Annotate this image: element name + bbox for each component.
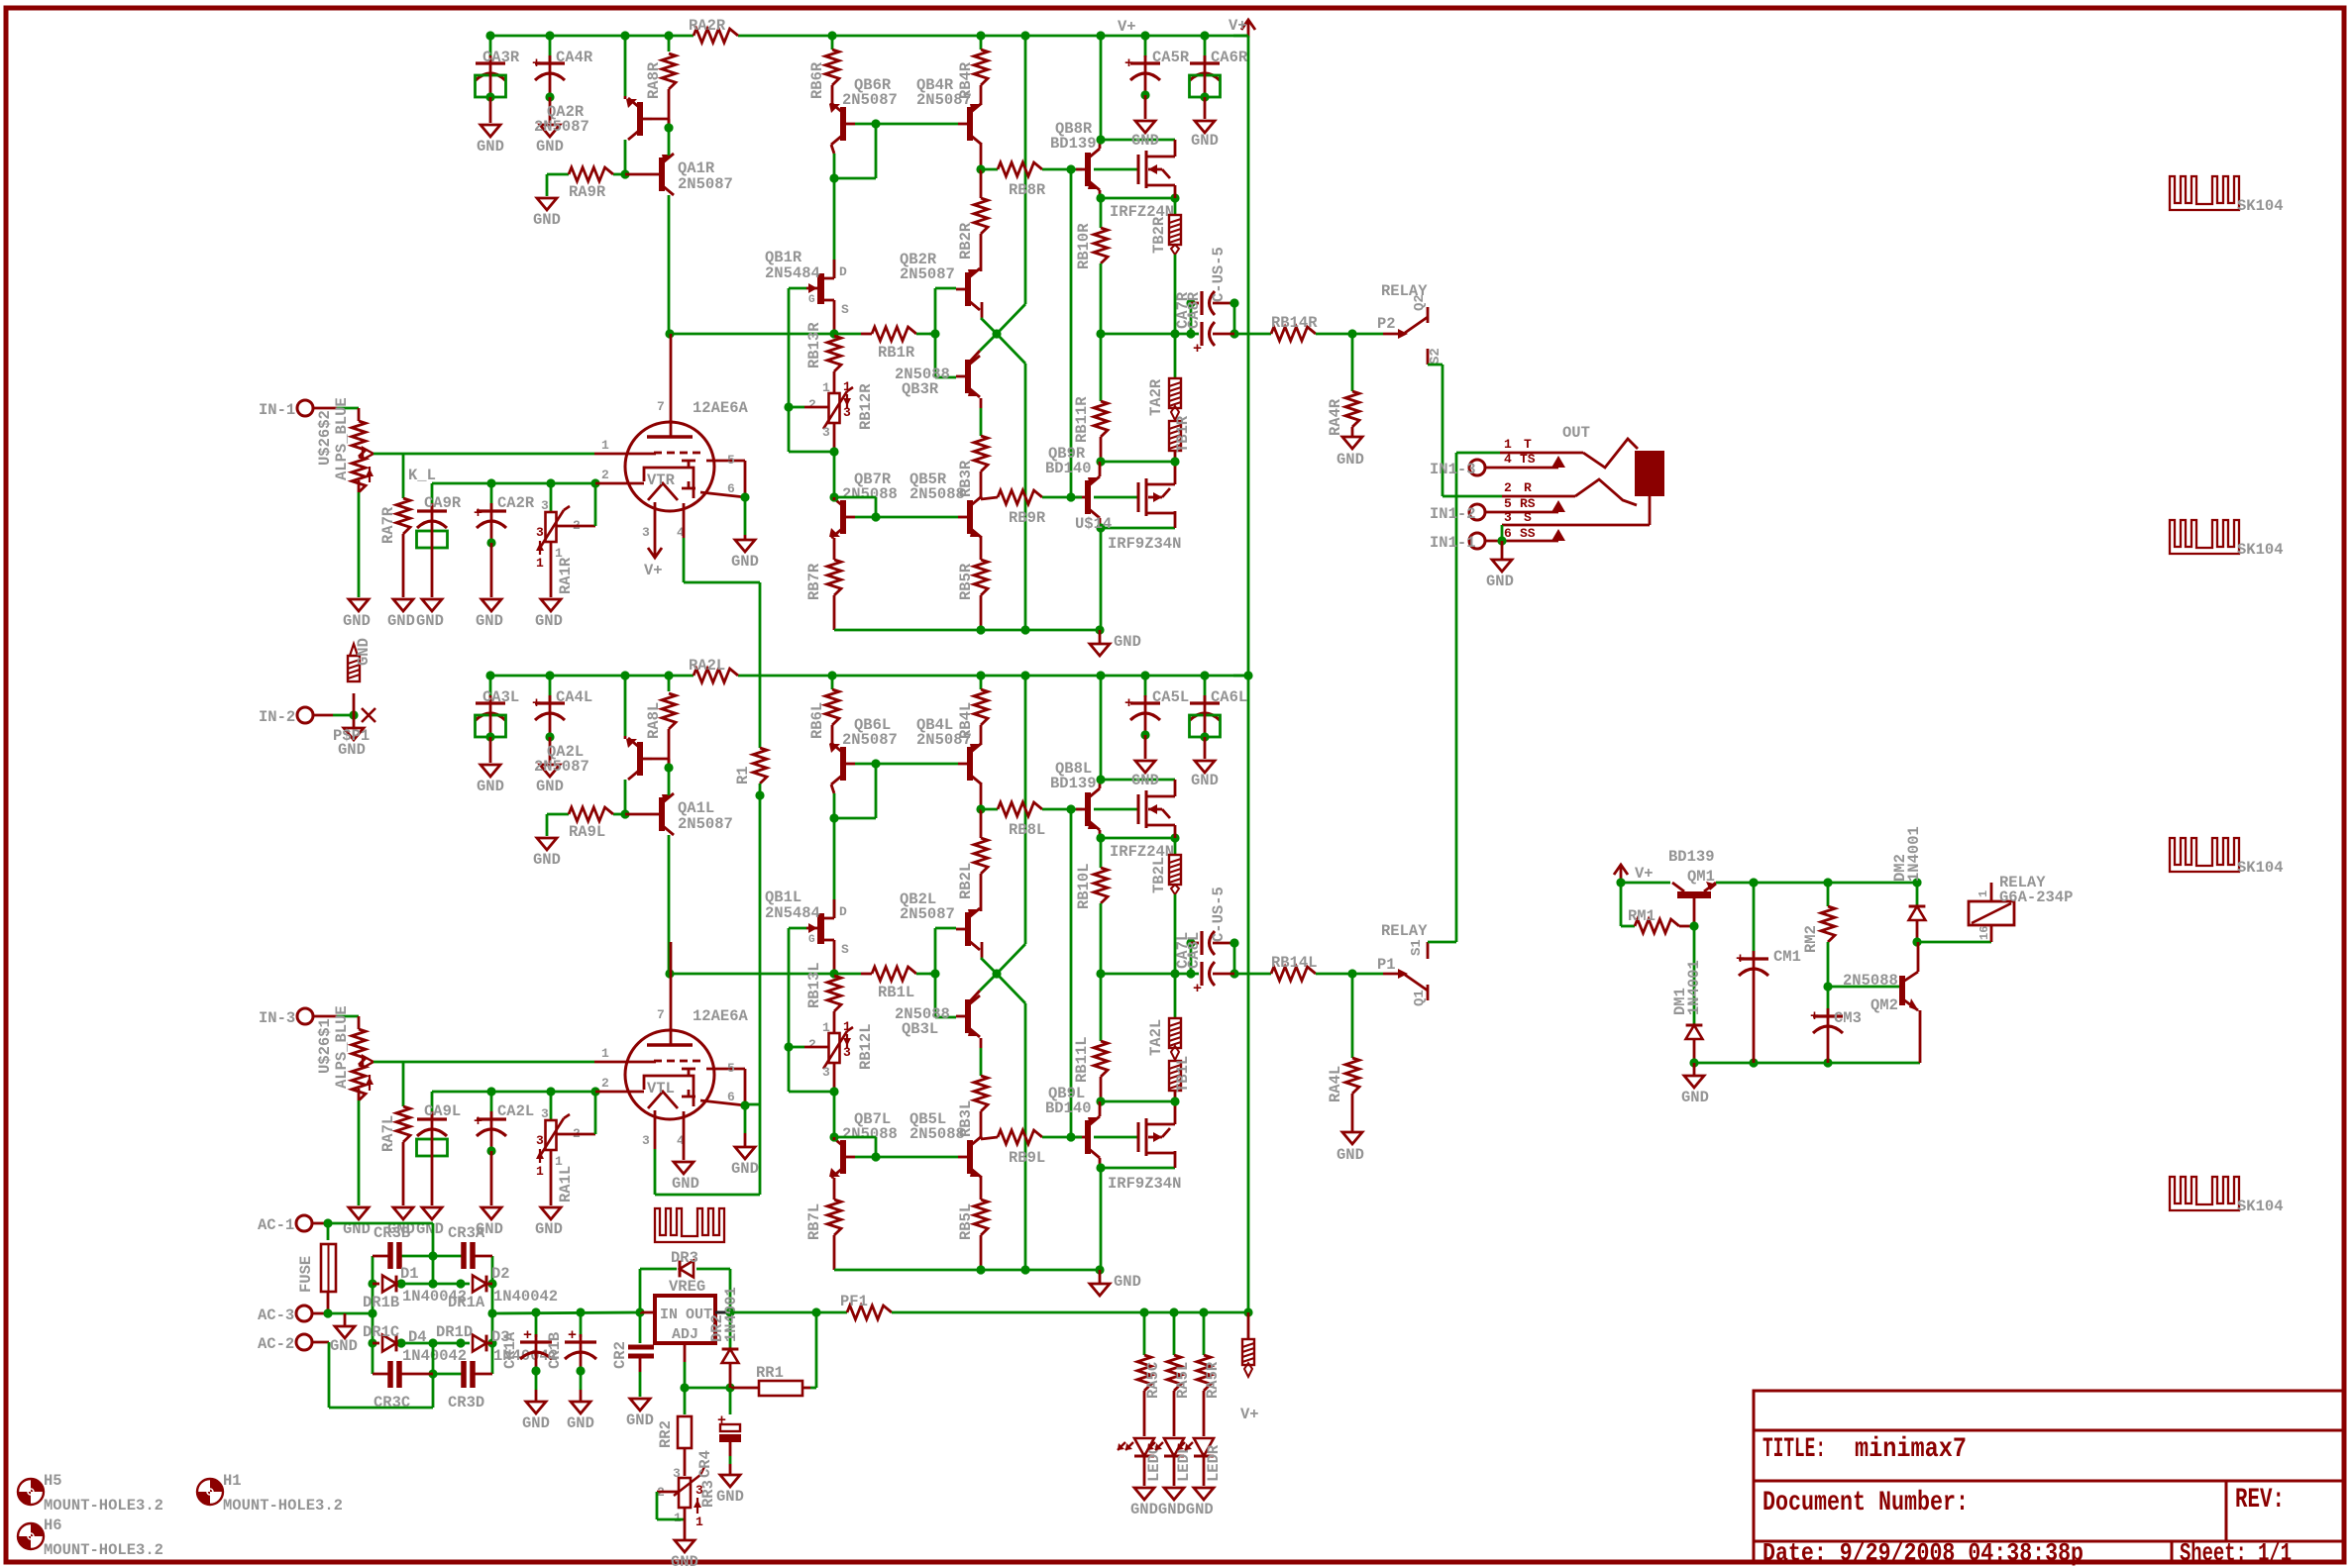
wire QB9R collector row (1101, 527, 1175, 530)
resistor RM1 (1635, 919, 1679, 933)
trimmer RB12L (829, 1033, 840, 1063)
capacitor CR2 (639, 1312, 642, 1343)
junction rail x990 L (976, 671, 985, 679)
wire jack gnd stub (1501, 541, 1504, 560)
svg-text:ALPS_BLUE: ALPS_BLUE (333, 397, 351, 480)
wire RA5R column (1203, 1312, 1206, 1355)
wire pot L bottom to ground (358, 1100, 361, 1205)
svg-text:SK104: SK104 (2237, 859, 2284, 877)
resistor RB11L (1100, 974, 1103, 1041)
wire QB1L drain (833, 818, 836, 918)
svg-text:GND: GND (1131, 132, 1159, 150)
svg-text:VTL: VTL (647, 1080, 675, 1098)
wire ground bus L (834, 1269, 1100, 1272)
svg-text:+: + (1193, 981, 1202, 997)
transistor QB9L BD140 (1085, 1120, 1091, 1154)
wire QB9L collector row (1101, 1167, 1175, 1170)
capacitor CR3B (387, 1242, 393, 1269)
diode DM1 1N4001 (1686, 1025, 1703, 1039)
svg-text:RB6R: RB6R (808, 61, 826, 99)
wire bus to TA2R (1174, 334, 1177, 378)
power V+ below VTR pin 3 (654, 502, 657, 540)
svg-text:7: 7 (657, 399, 665, 414)
svg-text:TB1R: TB1R (1174, 415, 1192, 453)
resistor RB7R (827, 560, 841, 595)
wire V+ main vertical (1247, 36, 1250, 1312)
capacitor CA4R (549, 36, 552, 61)
wire QB8R emitter node (1099, 190, 1102, 198)
svg-text:S1: S1 (1409, 939, 1425, 956)
resistor RA4R (1351, 334, 1354, 391)
svg-text:RA8R: RA8R (645, 61, 663, 99)
wire QB9R emitter (1099, 462, 1102, 476)
svg-text:DR1B: DR1B (363, 1294, 399, 1311)
transistor QB8R BD139 (1085, 153, 1091, 186)
svg-text:GND: GND (1336, 451, 1364, 469)
resistor RB8R (981, 168, 998, 171)
svg-text:RB6L: RB6L (808, 702, 826, 739)
svg-text:2N5087: 2N5087 (678, 815, 733, 833)
wire drain column to gnd bus L (1100, 1168, 1103, 1270)
svg-text:CA3R: CA3R (482, 49, 520, 66)
svg-text:GND: GND (477, 778, 504, 795)
svg-text:RB14L: RB14L (1271, 954, 1318, 972)
junction QM1 base/DM1 (1689, 921, 1698, 930)
ground CR4 (720, 1475, 740, 1487)
svg-text:IN1-2: IN1-2 (1430, 505, 1476, 523)
junction rail x631 R (620, 31, 629, 40)
trimmer TB1R (1169, 421, 1181, 451)
junction rail x1035 L (1020, 671, 1029, 679)
resistor RA9R (569, 167, 613, 181)
wire S to SS node (1501, 525, 1504, 541)
transistor QB8L BD139 (1085, 792, 1091, 826)
transistor QB6L (840, 747, 846, 781)
svg-text:2N5087: 2N5087 (678, 175, 733, 193)
junction RA4L (1347, 969, 1356, 978)
svg-text:RA1R: RA1R (557, 557, 575, 594)
diode DM2 body (1909, 906, 1926, 920)
wire source to TB2L (1174, 838, 1177, 855)
svg-text:C-US-5: C-US-5 (1210, 887, 1228, 942)
arrow TA2L wiper (1171, 1046, 1179, 1060)
svg-text:RB9R: RB9R (1009, 509, 1046, 527)
wire QB6R leads (830, 103, 833, 105)
wire V+ rail end (1233, 35, 1248, 38)
svg-text:CA6L: CA6L (1211, 688, 1247, 706)
svg-text:2N5088: 2N5088 (909, 1125, 965, 1143)
svg-text:5: 5 (727, 453, 735, 468)
svg-text:D1: D1 (400, 1265, 419, 1283)
wire ground bus R (834, 629, 1100, 632)
svg-text:RELAY: RELAY (1381, 922, 1428, 940)
resistor RB14L (1271, 967, 1316, 981)
junction bus/RB13L (829, 969, 838, 978)
svg-text:2N5087: 2N5087 (534, 118, 589, 136)
wire fuse to AC-3 row (327, 1292, 330, 1313)
svg-text:V+: V+ (644, 562, 663, 579)
junction rail x555 L (545, 671, 554, 679)
wire LEDC to gnd (1143, 1453, 1146, 1486)
jack pin 5 RS line (1485, 511, 1558, 514)
wire QA2L base to RA8L (652, 758, 669, 761)
capacitor CR3D (461, 1361, 467, 1388)
wire VTL pin6 to ground (744, 1105, 747, 1133)
pad IN1-1 (1469, 533, 1485, 549)
wire LEDR to gnd (1203, 1453, 1206, 1486)
svg-text:1: 1 (536, 1164, 544, 1179)
wire RA5L column (1173, 1312, 1176, 1355)
svg-text:CA9L: CA9L (424, 1102, 461, 1120)
wire relay gnd rail (1694, 1062, 1920, 1065)
wire IRFZ24N L source (1174, 825, 1177, 838)
junction lower mirror tie R (871, 512, 880, 521)
wire RA1L pin1 to gnd (550, 1150, 553, 1205)
svg-text:D4: D4 (408, 1328, 427, 1346)
wire gate feed lower R (1094, 496, 1138, 499)
svg-text:1: 1 (1504, 437, 1512, 452)
svg-text:TB2L: TB2L (1150, 857, 1168, 893)
svg-text:2: 2 (601, 468, 609, 482)
wire QB1R gate net (789, 287, 806, 290)
ground AC-3 center tap (344, 1313, 347, 1326)
wire QB4L collector down (980, 784, 983, 809)
wire RR1 to V+ rail (810, 1387, 816, 1390)
wire QB3R collector stub (969, 351, 980, 363)
pad IN1-2 (1469, 504, 1485, 520)
svg-text:5: 5 (727, 1061, 735, 1076)
svg-text:1: 1 (843, 1019, 851, 1034)
svg-text:+: + (474, 505, 482, 522)
junction QM2 base (1823, 982, 1832, 991)
transistor QB9R BD140 (1085, 480, 1091, 514)
ground pot L (349, 1207, 369, 1219)
svg-text:QM2: QM2 (1870, 996, 1898, 1014)
diode DR2 body (722, 1349, 739, 1363)
wire main bus left L (669, 973, 861, 976)
capacitor CA7L (1190, 943, 1193, 974)
svg-text:2N5087: 2N5087 (842, 731, 898, 749)
arrow RB12R red (846, 394, 848, 408)
transistor QA1L (659, 797, 665, 831)
junction RB12R bottom (829, 447, 838, 456)
svg-text:D2: D2 (491, 1265, 510, 1283)
wire RA9R to ground (546, 174, 549, 196)
ground pot R (349, 599, 369, 611)
svg-text:RA8L: RA8L (645, 702, 663, 739)
junction rail x1156 L (1140, 671, 1149, 679)
resistor RB7L (827, 1200, 841, 1235)
svg-text:GND: GND (1681, 1089, 1709, 1106)
svg-text:2N5088: 2N5088 (1843, 972, 1898, 990)
wire QB3L collector stub (969, 991, 980, 1002)
svg-text:ALPS_BLUE: ALPS_BLUE (333, 1005, 351, 1089)
pad AC-2 (296, 1334, 312, 1350)
svg-text:1N40042: 1N40042 (402, 1347, 467, 1365)
mosfet IRFZ24N R (1137, 155, 1140, 184)
capacitor CM1 (1753, 883, 1756, 957)
tube VTL 12AE6A (625, 1030, 714, 1119)
wire bridge left rail (372, 1256, 374, 1374)
wire QM2 base line (1828, 986, 1899, 989)
svg-text:1: 1 (695, 1515, 703, 1529)
trimmer RB12R (829, 393, 840, 423)
wire VTL pin 3 down (654, 1110, 657, 1149)
wire RA9L to ground (546, 814, 549, 836)
svg-text:GND: GND (343, 612, 371, 630)
wire RB12L wiper (789, 1046, 804, 1049)
mosfet IRF9Z34N R (1137, 482, 1140, 512)
trimmer TB2L (1169, 855, 1181, 885)
svg-text:RB12R: RB12R (857, 383, 875, 430)
svg-text:GND: GND (536, 138, 564, 156)
svg-text:TB2R: TB2R (1150, 216, 1168, 254)
svg-text:GND: GND (477, 138, 504, 156)
svg-text:IN-3: IN-3 (259, 1009, 295, 1027)
wire AC-1 to fuse (327, 1223, 330, 1240)
resistor RB6R (831, 36, 834, 50)
svg-text:1: 1 (843, 379, 851, 394)
svg-text:2N5088: 2N5088 (842, 1125, 898, 1143)
svg-text:U$26$1: U$26$1 (316, 1018, 334, 1074)
trimmer TB2R (1169, 215, 1181, 245)
svg-text:RA5L: RA5L (1174, 1362, 1192, 1399)
wire RA9L net (547, 813, 569, 816)
wire QA1L emitter up (668, 768, 671, 795)
wire wiper to RA7R (402, 454, 405, 498)
svg-text:RS: RS (1520, 496, 1536, 511)
junction mirror tie R (871, 119, 880, 128)
svg-text:RA7L: RA7L (379, 1115, 397, 1152)
svg-text:3: 3 (1504, 510, 1512, 525)
heatsink SK104 #1 (2170, 176, 2239, 210)
svg-text:GND: GND (1114, 1273, 1141, 1291)
wire cross arm lower-left L (980, 974, 997, 991)
junction QB6R collector tie (829, 173, 838, 182)
svg-text:6: 6 (727, 1090, 735, 1104)
resistor RB3R (980, 398, 983, 408)
svg-text:RB5L: RB5L (957, 1203, 975, 1240)
svg-text:BD139: BD139 (1050, 775, 1097, 792)
svg-text:TA2L: TA2L (1147, 1019, 1165, 1056)
ground CA2R (481, 599, 501, 611)
wire QA2R collector (624, 140, 627, 174)
wire CA8R to RB14R (1234, 333, 1271, 336)
svg-text:+: + (717, 1412, 726, 1429)
diode D4 DR1C (382, 1335, 396, 1352)
svg-text:2N5484: 2N5484 (765, 264, 820, 282)
svg-text:REV:: REV: (2235, 1485, 2285, 1516)
wire IRF9Z34N R drain (1174, 511, 1177, 528)
svg-text:1N4001: 1N4001 (1905, 826, 1923, 882)
junction rail x1035 R (1020, 31, 1029, 40)
arrow TA2R wiper (1171, 406, 1179, 420)
wire V+ low rail (892, 1311, 1248, 1314)
wire QB8L collector node (1099, 780, 1102, 788)
ground DM1 (1693, 1063, 1696, 1076)
wire VTR pin 7 (670, 334, 673, 422)
ground VTR (735, 540, 755, 552)
wire main bus left R (669, 333, 861, 336)
wire RB13R to RB12R (833, 371, 836, 393)
wire QA1R collector down to bus (668, 195, 671, 334)
wire bridge diode row 1 (373, 1283, 379, 1286)
svg-text:MOUNT-HOLE3.2: MOUNT-HOLE3.2 (44, 1541, 163, 1559)
wire relay pin16 row (1917, 941, 1991, 944)
diode D1 DR1B (382, 1276, 396, 1293)
heatsink SK104 #2 (2170, 520, 2239, 554)
svg-text:CR1B: CR1B (546, 1332, 564, 1369)
wire TB2L to bus (1174, 894, 1177, 974)
svg-text:3: 3 (541, 1106, 549, 1121)
wire QA2R emitter (624, 36, 627, 96)
wire RB5L to gnd bus (980, 1235, 983, 1270)
svg-text:GNDGNDGND: GNDGNDGND (1130, 1501, 1214, 1518)
wire cathode bus R (432, 482, 595, 485)
ground CA6L (1195, 761, 1215, 773)
switch terminal S2 (1427, 349, 1430, 365)
wire IRF9Z34N L source (1174, 1101, 1177, 1124)
svg-text:VTR: VTR (647, 471, 676, 489)
svg-text:CR2: CR2 (611, 1341, 629, 1369)
mount hole H1 (197, 1479, 223, 1505)
wire cross arm upper-left R (981, 318, 997, 334)
svg-text:1N4001: 1N4001 (1685, 960, 1703, 1015)
svg-text:GND: GND (731, 553, 759, 571)
ground IN-2 (344, 728, 364, 740)
svg-text:DR3: DR3 (671, 1249, 698, 1267)
capacitor CA8L (1233, 943, 1236, 974)
svg-text:GND: GND (671, 1553, 698, 1568)
svg-text:3: 3 (843, 405, 851, 420)
svg-text:QM1: QM1 (1687, 868, 1715, 886)
switch terminal S1 (1427, 942, 1430, 959)
svg-text:RA4R: RA4R (1327, 398, 1344, 436)
wire wiper line L (374, 1061, 594, 1064)
capacitor CA6L (1204, 676, 1207, 701)
svg-text:GND: GND (387, 612, 415, 630)
diode DR2 1N4001 (729, 1312, 732, 1349)
junction bus/TB2L (1170, 969, 1179, 978)
svg-text:RB11L: RB11L (1073, 1036, 1091, 1083)
svg-text:RB5R: RB5R (957, 563, 975, 600)
svg-text:IN1-3: IN1-3 (1430, 461, 1476, 478)
svg-text:MOUNT-HOLE3.2: MOUNT-HOLE3.2 (44, 1497, 163, 1515)
svg-text:Document Number:: Document Number: (1763, 1488, 1969, 1518)
ground PAD1 (353, 715, 356, 728)
junction rail x840 L (827, 671, 836, 679)
wire lower rail to V+ vertical (1233, 675, 1248, 678)
wire AC-2 loop to bottom cap row (312, 1341, 329, 1344)
ground CR2 (630, 1399, 650, 1411)
wire RA1R pin1 to gnd (550, 542, 553, 597)
wire RA5C column (1143, 1312, 1146, 1355)
svg-text:GND: GND (533, 211, 561, 229)
svg-text:IN: IN (660, 1307, 678, 1323)
svg-text:CA6R: CA6R (1211, 49, 1248, 66)
trimmer TA2L (1169, 1018, 1181, 1048)
junction bus/RB13R (829, 329, 838, 338)
svg-text:CA4L: CA4L (556, 688, 592, 706)
potentiometer U$26$2 ALPS_BLUE (358, 408, 361, 421)
wire S2 to jack ring (1428, 364, 1443, 366)
resistor RB13L (827, 976, 841, 1011)
svg-text:RR2: RR2 (657, 1420, 675, 1448)
ground relay circuit (1684, 1076, 1704, 1088)
wire QB5L emitter to RB5L (980, 1178, 983, 1200)
wire QB8L emitter node (1099, 830, 1102, 838)
svg-text:LEDR: LEDR (1205, 1444, 1223, 1482)
svg-text:2: 2 (601, 1076, 609, 1091)
wire QA2L emitter (624, 676, 627, 736)
junction RA9L/QA2L (620, 809, 629, 818)
wire bus to TA2L (1174, 974, 1177, 1018)
led LEDR (1194, 1438, 1214, 1456)
wire lower mirror tie horiz R (834, 496, 876, 499)
junction bus/tube plate R (665, 329, 674, 338)
jack tip contact (1583, 439, 1638, 468)
svg-text:PF1: PF1 (840, 1293, 868, 1310)
svg-text:CA8L: CA8L (1185, 932, 1203, 969)
wire AC-1 down to cap row (432, 1223, 435, 1256)
svg-text:CA5L: CA5L (1152, 688, 1189, 706)
resistor RB1R (872, 327, 916, 341)
svg-text:2: 2 (808, 1037, 816, 1052)
wire ADJ row (685, 1387, 730, 1390)
trimmer TB1L (1169, 1061, 1181, 1091)
wire bridge top cap row (373, 1255, 390, 1258)
junction RB12L bottom (829, 1087, 838, 1096)
wire DM2 anode to relay pin16 node (1916, 920, 1919, 942)
transistor QA2R (637, 102, 643, 136)
junction RA4R (1347, 329, 1356, 338)
svg-text:Date: 9/29/2008 04:38:38p: Date: 9/29/2008 04:38:38p (1763, 1538, 2084, 1568)
junction rail x675 R (664, 31, 673, 40)
resistor RB8L (981, 808, 998, 811)
jack pin 4 TS line (1485, 467, 1558, 470)
heatsink SK104 #4 (2170, 1177, 2239, 1210)
svg-text:S: S (841, 942, 849, 957)
junction QB4R/RB8R/RB2R (976, 164, 985, 173)
svg-text:3: 3 (843, 1045, 851, 1060)
wire RB13L to RB12L (833, 1011, 836, 1033)
junction rail x495 R (485, 31, 494, 40)
svg-text:3: 3 (673, 1466, 681, 1481)
svg-text:AC-3: AC-3 (258, 1307, 294, 1324)
resistor RB13R (827, 336, 841, 371)
junction QB7L collector (829, 1132, 838, 1141)
wire RB7R to gnd bus (833, 595, 836, 630)
svg-text:+: + (532, 695, 541, 712)
junction RB11R/QB9R (1096, 457, 1105, 466)
junction rail x1156 R (1140, 31, 1149, 40)
svg-text:CR3C: CR3C (374, 1394, 410, 1411)
svg-text:RR3: RR3 (699, 1480, 717, 1508)
svg-text:RB2R: RB2R (957, 222, 975, 260)
wire VTL pin 1 (594, 1061, 656, 1064)
wire QB7L collector (833, 1092, 836, 1137)
wire drain column to gnd bus R (1100, 528, 1103, 630)
svg-text:1N4001: 1N4001 (722, 1287, 740, 1342)
resistor RA5C (1137, 1355, 1151, 1391)
wire RA7L to gnd (402, 1142, 405, 1205)
wire VTR pin 1 (594, 453, 656, 456)
svg-text:CA8R: CA8R (1185, 291, 1203, 329)
resistor RB1L (872, 967, 916, 981)
resistor RA8R (668, 36, 671, 52)
capacitor CA3L (489, 676, 492, 701)
ground CA2L (481, 1207, 501, 1219)
